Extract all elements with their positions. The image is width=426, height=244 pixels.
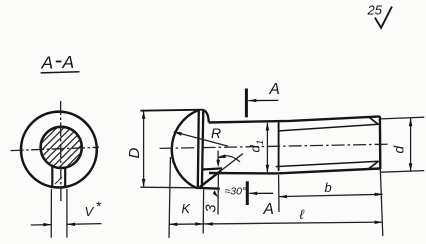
shank bottom edge (209, 169, 380, 174)
nib root line (side view) (203, 168, 223, 169)
nib length extension line (217, 172, 219, 215)
R leader line (174, 132, 228, 146)
head dome arc (172, 110, 198, 188)
b left extension line (278, 175, 280, 212)
end chamfer top (369, 117, 379, 125)
svg-text:A: A (263, 201, 274, 218)
thread start line (278, 122, 280, 171)
d dimension extension top (381, 117, 425, 119)
label d1 (rotated) (248, 140, 267, 153)
b dimension line with arrows (279, 193, 383, 199)
svg-text:b: b (325, 180, 332, 195)
nib height arrow (down) (216, 160, 220, 168)
nib hatch tick (55, 177, 62, 184)
section plane mark bottom: arrow (249, 192, 273, 196)
svg-text:25: 25 (367, 3, 383, 18)
l left arrow (205, 222, 213, 226)
head face left line (198, 110, 199, 188)
V* dimension line left segment with arrow (31, 223, 52, 227)
D dimension line with arrows (142, 111, 146, 187)
V* dimension line right segment with arrow (67, 223, 102, 227)
end chamfer bottom (369, 161, 379, 168)
thread root top line (279, 124, 378, 131)
section plane mark bottom: thick bar (246, 181, 249, 205)
thread root bottom line (276, 161, 379, 166)
head bottom line and D bottom extension (140, 186, 196, 189)
svg-text:≈30°: ≈30° (225, 186, 247, 198)
bolt centerline (160, 144, 389, 148)
svg-text:A: A (41, 53, 54, 73)
K and l common dimension line (169, 222, 383, 224)
svg-text:A: A (62, 52, 75, 72)
K left arrow (169, 223, 177, 227)
section outer circle (head outline) (21, 112, 97, 188)
svg-text:*: * (96, 198, 102, 214)
V* extension line left (50, 189, 52, 238)
l right arrow (375, 221, 383, 225)
d1 dimension line with arrows (266, 123, 270, 173)
end face line (379, 116, 382, 169)
section inner circle (shank section) (41, 127, 82, 168)
svg-text:K: K (182, 202, 191, 216)
nib right edge (section) (64, 167, 66, 188)
underhead fillet top (203, 110, 209, 122)
head top band line and D top extension (140, 110, 203, 111)
svg-text:d: d (392, 146, 407, 154)
svg-text:D: D (126, 148, 143, 159)
svg-text:ℓ: ℓ (300, 207, 305, 222)
30deg leader arrowhead (213, 190, 218, 197)
K right / l left extension line (202, 190, 204, 234)
shank top edge (209, 116, 380, 122)
section vertical centerline (60, 101, 62, 201)
nib height dimension line (217, 151, 219, 163)
angle arc with arrow (218, 156, 240, 162)
svg-text:R: R (211, 125, 221, 141)
section title A-A (41, 52, 80, 73)
section horizontal centerline (11, 147, 99, 150)
nib 30deg edge thick (200, 171, 221, 187)
nib 30deg thin extension leader (221, 154, 243, 171)
svg-text:V: V (85, 204, 95, 219)
section plane mark top: arrow (248, 99, 278, 103)
section plane mark top: thick bar (245, 89, 248, 118)
hatching of shank section (7, 120, 114, 178)
d dimension extension bottom (381, 171, 425, 173)
svg-text:1: 1 (255, 140, 266, 145)
head face right line (202, 110, 203, 188)
nib left edge (section) (51, 165, 53, 188)
roughness symbol 25 (367, 3, 392, 28)
svg-text:A: A (269, 81, 280, 98)
V* extension line right (66, 189, 68, 238)
l right extension line (380, 169, 383, 236)
K left extension line (169, 157, 170, 238)
d dimension line with arrows (409, 118, 413, 171)
R leader arrowhead (174, 132, 182, 136)
svg-text:3: 3 (204, 204, 220, 212)
label V* (85, 198, 102, 219)
K right arrow (195, 222, 203, 226)
